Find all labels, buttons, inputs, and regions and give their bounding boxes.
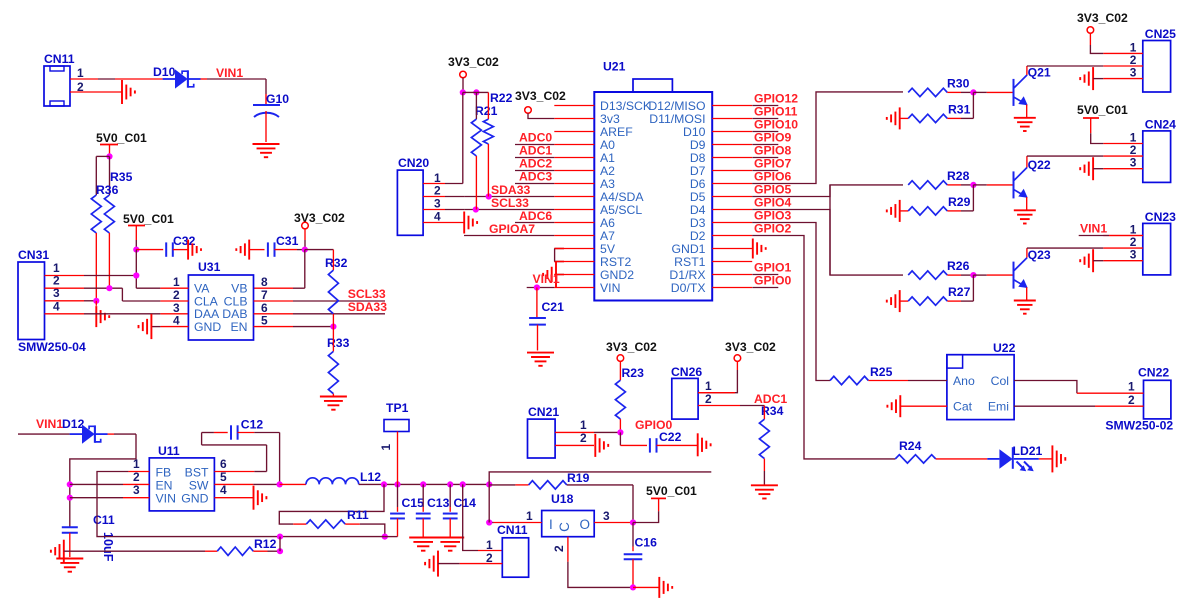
svg-text:6: 6	[220, 457, 227, 471]
svg-text:1: 1	[133, 457, 140, 471]
svg-text:CN25: CN25	[1145, 27, 1176, 41]
svg-text:Emi: Emi	[988, 400, 1009, 414]
svg-text:5V0_C01: 5V0_C01	[96, 131, 147, 145]
svg-text:2: 2	[705, 392, 712, 406]
svg-text:R24: R24	[899, 439, 922, 453]
svg-text:A4/SDA: A4/SDA	[600, 190, 644, 204]
svg-text:D0/TX: D0/TX	[671, 281, 706, 295]
svg-text:D3: D3	[690, 216, 706, 230]
svg-text:R25: R25	[870, 365, 893, 379]
svg-text:C22: C22	[659, 430, 682, 444]
svg-text:Q23: Q23	[1028, 248, 1051, 262]
svg-text:GPIOA7: GPIOA7	[489, 222, 535, 236]
svg-text:2: 2	[1128, 393, 1135, 407]
svg-text:L12: L12	[360, 470, 381, 484]
svg-text:VIN: VIN	[600, 281, 620, 295]
svg-text:A6: A6	[600, 216, 615, 230]
svg-text:R36: R36	[96, 183, 119, 197]
svg-text:FB: FB	[156, 466, 172, 480]
svg-text:GPIO11: GPIO11	[754, 105, 798, 119]
svg-text:4: 4	[434, 210, 441, 224]
svg-text:C13: C13	[427, 496, 450, 510]
svg-text:CN26: CN26	[671, 365, 702, 379]
svg-text:I: I	[549, 517, 553, 532]
svg-text:3: 3	[1130, 248, 1137, 262]
svg-text:3: 3	[434, 197, 441, 211]
svg-text:3: 3	[1130, 156, 1137, 170]
svg-text:CN21: CN21	[528, 405, 559, 419]
svg-text:4: 4	[173, 314, 180, 328]
svg-text:R12: R12	[254, 537, 277, 551]
svg-text:C21: C21	[542, 300, 565, 314]
svg-text:D12/MISO: D12/MISO	[648, 99, 705, 113]
svg-text:D9: D9	[690, 138, 706, 152]
svg-text:ADC6: ADC6	[519, 209, 552, 223]
svg-text:O: O	[580, 517, 591, 532]
svg-text:D11/MOSI: D11/MOSI	[649, 112, 705, 126]
svg-text:R32: R32	[325, 256, 348, 270]
svg-text:D10: D10	[153, 65, 176, 79]
svg-text:1: 1	[379, 444, 393, 451]
svg-text:2: 2	[434, 184, 441, 198]
svg-text:U11: U11	[158, 444, 180, 458]
svg-text:D7: D7	[690, 164, 706, 178]
svg-text:RST1: RST1	[674, 255, 706, 269]
svg-text:4: 4	[53, 300, 60, 314]
svg-text:D2: D2	[690, 229, 706, 243]
svg-text:3V3_C02: 3V3_C02	[515, 89, 566, 103]
svg-text:D6: D6	[690, 177, 706, 191]
svg-text:A5/SCL: A5/SCL	[600, 203, 642, 217]
svg-text:CN22: CN22	[1138, 366, 1169, 380]
svg-text:GPIO10: GPIO10	[754, 118, 798, 132]
svg-text:SCL33: SCL33	[491, 196, 529, 210]
svg-text:R28: R28	[947, 169, 970, 183]
svg-text:C14: C14	[454, 496, 477, 510]
svg-text:3V3_C02: 3V3_C02	[448, 55, 499, 69]
svg-text:Q21: Q21	[1028, 65, 1051, 79]
svg-text:GND: GND	[194, 320, 221, 334]
svg-text:R11: R11	[347, 508, 369, 522]
svg-text:CN11: CN11	[497, 523, 528, 537]
svg-text:4: 4	[220, 483, 227, 497]
svg-text:3: 3	[603, 509, 610, 523]
svg-text:GPIO9: GPIO9	[754, 131, 791, 145]
svg-text:U21: U21	[603, 60, 626, 74]
svg-text:1: 1	[1128, 380, 1135, 394]
svg-text:TP1: TP1	[386, 401, 409, 415]
svg-text:VIN1: VIN1	[36, 417, 63, 431]
svg-text:GPIO6: GPIO6	[754, 170, 791, 184]
svg-text:SMW250-04: SMW250-04	[18, 340, 86, 354]
svg-text:D12: D12	[62, 417, 85, 431]
svg-text:SDA33: SDA33	[491, 183, 531, 197]
svg-text:ADC3: ADC3	[519, 170, 552, 184]
svg-text:Ano: Ano	[953, 374, 975, 388]
svg-text:CN20: CN20	[398, 156, 429, 170]
svg-text:Col: Col	[991, 374, 1009, 388]
svg-text:R27: R27	[948, 285, 971, 299]
svg-text:3: 3	[1130, 66, 1137, 80]
svg-text:C11: C11	[93, 513, 115, 527]
svg-text:1: 1	[705, 379, 712, 393]
svg-text:3V3_C02: 3V3_C02	[606, 340, 657, 354]
svg-text:R30: R30	[947, 76, 970, 90]
svg-text:GND2: GND2	[600, 268, 634, 282]
svg-text:R22: R22	[490, 91, 513, 105]
svg-text:3V3_C02: 3V3_C02	[725, 340, 776, 354]
svg-text:1: 1	[77, 66, 84, 80]
svg-text:GPIO5: GPIO5	[754, 183, 791, 197]
svg-text:CN31: CN31	[18, 248, 49, 262]
svg-text:ADC1: ADC1	[519, 144, 552, 158]
svg-text:2: 2	[486, 551, 493, 565]
svg-text:2: 2	[580, 431, 587, 445]
svg-text:GPIO2: GPIO2	[754, 222, 791, 236]
svg-text:5V0_C01: 5V0_C01	[646, 484, 697, 498]
svg-text:Cat: Cat	[953, 400, 973, 414]
svg-text:A2: A2	[600, 164, 615, 178]
svg-text:1: 1	[486, 538, 493, 552]
svg-text:GPIO8: GPIO8	[754, 144, 791, 158]
svg-text:1: 1	[580, 418, 587, 432]
svg-text:R31: R31	[948, 102, 971, 116]
svg-text:SW: SW	[189, 479, 209, 493]
svg-text:D10: D10	[683, 125, 706, 139]
svg-text:U18: U18	[551, 492, 574, 506]
svg-text:C: C	[557, 522, 572, 532]
svg-text:EN: EN	[156, 479, 173, 493]
svg-text:U31: U31	[198, 260, 221, 274]
svg-text:EN: EN	[230, 320, 247, 334]
svg-text:LD21: LD21	[1013, 444, 1043, 458]
svg-text:GPIO3: GPIO3	[754, 209, 791, 223]
svg-text:D4: D4	[690, 203, 706, 217]
svg-text:5V: 5V	[600, 242, 616, 256]
svg-text:GPIO7: GPIO7	[754, 157, 791, 171]
svg-text:R21: R21	[475, 104, 498, 118]
svg-text:R23: R23	[622, 366, 645, 380]
svg-text:5: 5	[261, 314, 268, 328]
svg-text:GND: GND	[181, 492, 208, 506]
svg-text:CN23: CN23	[1145, 210, 1176, 224]
svg-text:3V3_C02: 3V3_C02	[1077, 11, 1128, 25]
svg-text:C12: C12	[241, 418, 264, 432]
svg-text:C15: C15	[402, 496, 425, 510]
svg-text:CN11: CN11	[44, 52, 75, 66]
svg-text:D5: D5	[690, 190, 706, 204]
svg-text:U22: U22	[993, 341, 1016, 355]
svg-text:1: 1	[526, 509, 533, 523]
svg-text:R33: R33	[327, 336, 350, 350]
svg-text:GPIO12: GPIO12	[754, 92, 798, 106]
svg-text:VIN1: VIN1	[533, 272, 560, 286]
svg-text:5V0_C01: 5V0_C01	[123, 212, 174, 226]
svg-text:D13/SCK: D13/SCK	[600, 99, 652, 113]
svg-text:A3: A3	[600, 177, 615, 191]
svg-text:A7: A7	[600, 229, 615, 243]
svg-text:GPIO0: GPIO0	[754, 274, 791, 288]
svg-text:R29: R29	[948, 195, 971, 209]
svg-text:2: 2	[552, 545, 566, 552]
svg-text:Q22: Q22	[1028, 158, 1051, 172]
svg-text:CN24: CN24	[1145, 117, 1176, 131]
svg-text:C16: C16	[635, 536, 658, 550]
svg-text:3V3_C02: 3V3_C02	[294, 211, 345, 225]
svg-text:C31: C31	[276, 234, 299, 248]
svg-text:ADC2: ADC2	[519, 157, 552, 171]
svg-text:VIN1: VIN1	[216, 66, 243, 80]
svg-text:RST2: RST2	[600, 255, 632, 269]
svg-text:ADC0: ADC0	[519, 131, 552, 145]
svg-text:BST: BST	[185, 466, 209, 480]
svg-text:R35: R35	[110, 170, 133, 184]
svg-text:D8: D8	[690, 151, 706, 165]
svg-text:G10: G10	[266, 92, 289, 106]
svg-text:R26: R26	[947, 259, 970, 273]
svg-text:GPIO4: GPIO4	[754, 196, 791, 210]
svg-text:5V0_C01: 5V0_C01	[1077, 103, 1128, 117]
svg-text:GPIO1: GPIO1	[754, 261, 791, 275]
svg-text:AREF: AREF	[600, 125, 633, 139]
svg-text:A1: A1	[600, 151, 615, 165]
svg-text:3: 3	[133, 483, 140, 497]
svg-text:SMW250-02: SMW250-02	[1105, 418, 1173, 432]
svg-text:VIN: VIN	[156, 492, 176, 506]
svg-text:3v3: 3v3	[600, 112, 620, 126]
svg-text:GND1: GND1	[671, 242, 705, 256]
svg-text:R19: R19	[567, 471, 590, 485]
svg-text:SDA33: SDA33	[348, 300, 388, 314]
svg-text:A0: A0	[600, 138, 615, 152]
svg-text:VIN1: VIN1	[1080, 222, 1107, 236]
svg-text:D1/RX: D1/RX	[669, 268, 705, 282]
